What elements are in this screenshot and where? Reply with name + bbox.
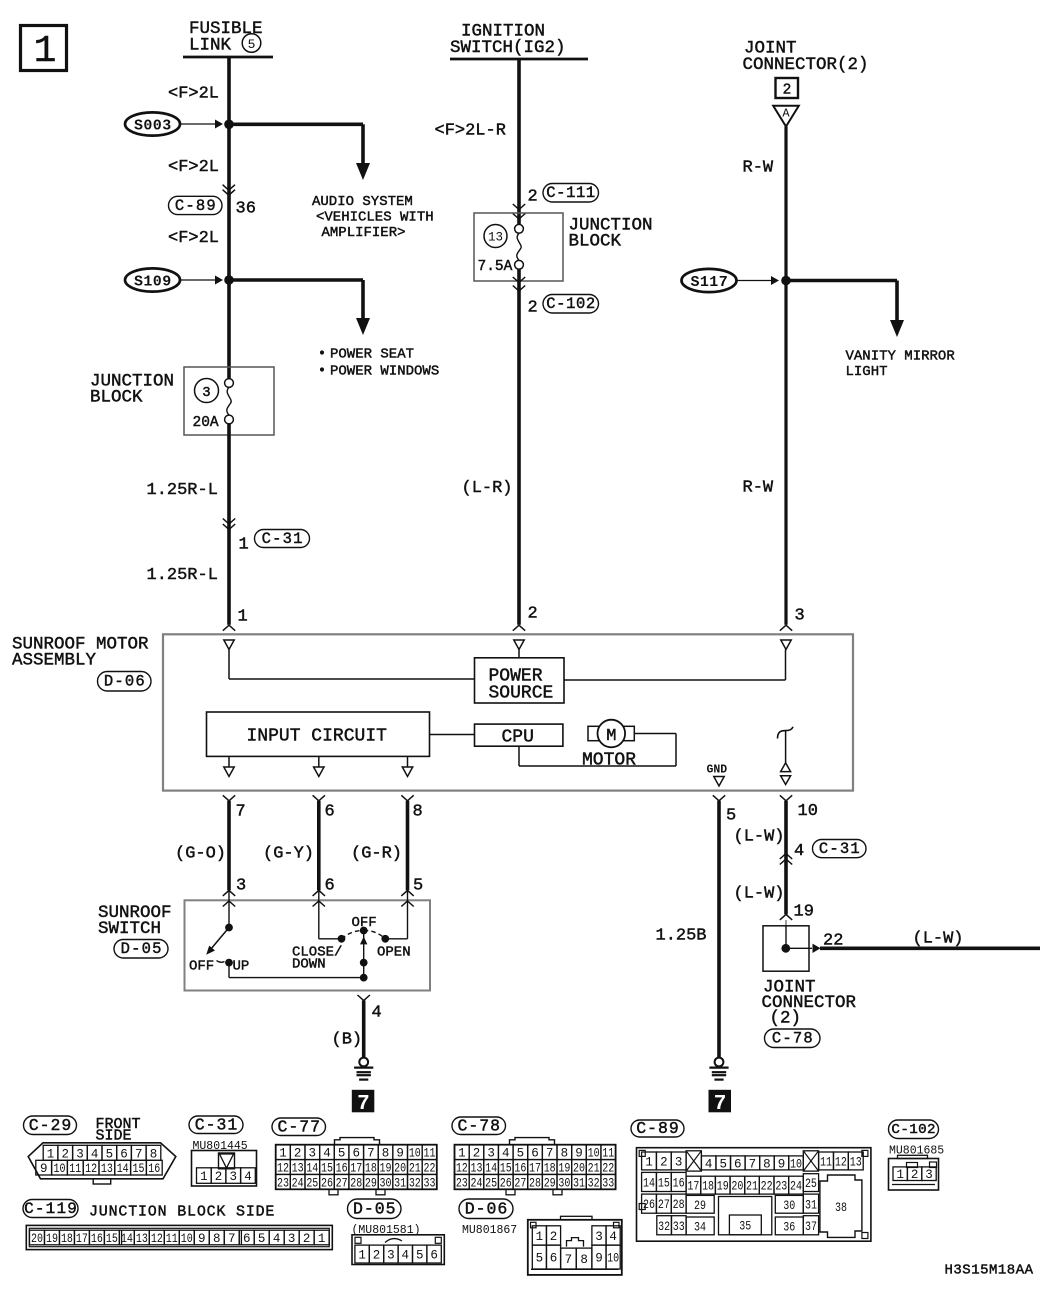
connector C-31 right label (813, 840, 867, 858)
svg-text:1: 1 (458, 1147, 466, 1161)
ground wire (B) (362, 1001, 366, 1059)
svg-text:32: 32 (409, 1176, 421, 1190)
svg-text:5: 5 (517, 1147, 525, 1161)
exit chevron pin 10 (780, 795, 792, 801)
svg-text:31: 31 (394, 1176, 406, 1190)
switch entry chevrons pin 5 (401, 890, 413, 896)
svg-text:10: 10 (54, 1162, 66, 1176)
svg-text:15: 15 (106, 1232, 118, 1246)
svg-text:8: 8 (382, 1147, 390, 1161)
svg-text:POWER SEAT: POWER SEAT (330, 347, 414, 363)
svg-text:31: 31 (573, 1176, 585, 1190)
svg-text:25: 25 (306, 1176, 318, 1190)
svg-text:11: 11 (820, 1155, 832, 1169)
svg-text:1: 1 (34, 30, 57, 73)
svg-text:2: 2 (473, 1147, 481, 1161)
svg-text:8: 8 (763, 1157, 771, 1171)
svg-text:7: 7 (135, 1147, 143, 1161)
svg-text:4: 4 (609, 1230, 617, 1244)
svg-text:OPEN: OPEN (377, 945, 411, 961)
wire below junction block mid (517, 269, 521, 625)
junction block (mid) box (474, 213, 563, 281)
svg-text:(2): (2) (770, 1009, 802, 1029)
close/down contact wire (318, 890, 320, 938)
svg-text:7: 7 (236, 803, 246, 822)
svg-text:11: 11 (166, 1232, 178, 1246)
svg-text:3: 3 (309, 1147, 317, 1161)
svg-text:1: 1 (238, 608, 248, 627)
svg-text:32: 32 (658, 1220, 670, 1234)
svg-text:8: 8 (213, 1232, 221, 1246)
input circuit output stubs and triangles (228, 756, 230, 767)
svg-text:3: 3 (925, 1168, 933, 1182)
svg-text:S109: S109 (134, 273, 172, 290)
svg-text:23: 23 (456, 1176, 468, 1190)
connector D-06 pins bottom (532, 1245, 546, 1269)
svg-text:POWER WINDOWS: POWER WINDOWS (330, 364, 439, 380)
svg-text:1.25R-L: 1.25R-L (147, 481, 218, 500)
svg-text:19: 19 (717, 1180, 729, 1194)
svg-text:(L-R): (L-R) (462, 479, 513, 498)
svg-text:2: 2 (373, 1249, 381, 1263)
connector C-89 label (169, 196, 223, 214)
joint connector triangle A (773, 106, 799, 127)
entry triangle pin 1 (224, 640, 234, 650)
svg-text:2: 2 (215, 1170, 223, 1184)
svg-text:15: 15 (321, 1162, 333, 1176)
svg-text:23: 23 (775, 1180, 787, 1194)
svg-text:22: 22 (823, 932, 843, 951)
svg-text:20: 20 (573, 1162, 585, 1176)
svg-text:22: 22 (423, 1162, 435, 1176)
svg-text:2: 2 (528, 605, 538, 624)
entry chevron pin 19 (780, 914, 792, 920)
svg-text:36: 36 (236, 200, 256, 219)
svg-text:21: 21 (409, 1162, 421, 1176)
svg-text:6: 6 (243, 1232, 251, 1246)
svg-text:(G-O): (G-O) (175, 845, 226, 864)
svg-text:C-102: C-102 (891, 1122, 936, 1138)
svg-text:3: 3 (202, 385, 210, 401)
sunroof switch box (185, 900, 431, 990)
svg-text:3: 3 (288, 1232, 296, 1246)
svg-text:VANITY MIRROR: VANITY MIRROR (846, 349, 956, 365)
svg-text:5: 5 (719, 1157, 727, 1171)
svg-text:SWITCH: SWITCH (98, 919, 161, 939)
wire pin 10 down (784, 801, 788, 914)
connector C-89 pin 37 (803, 1216, 818, 1235)
page number box 1 (21, 26, 67, 71)
svg-text:14: 14 (643, 1176, 655, 1190)
svg-text:8: 8 (150, 1147, 158, 1161)
svg-text:9: 9 (40, 1162, 48, 1176)
svg-text:2: 2 (528, 299, 538, 318)
svg-text:H3S15M18AA: H3S15M18AA (945, 1263, 1034, 1279)
svg-text:2: 2 (61, 1147, 69, 1161)
svg-text:CONNECTOR(2): CONNECTOR(2) (743, 55, 869, 75)
svg-text:7: 7 (714, 1093, 727, 1116)
connector D-05 bottom label (348, 1199, 402, 1219)
gnd triangle pin 5 (714, 777, 724, 787)
svg-text:6: 6 (430, 1249, 438, 1263)
svg-text:16: 16 (514, 1162, 526, 1176)
svg-text:2: 2 (550, 1230, 558, 1244)
connector D-06 middle tab (567, 1238, 584, 1247)
svg-text:13: 13 (136, 1232, 148, 1246)
svg-text:3: 3 (229, 1170, 237, 1184)
wire pin 8 to switch (406, 801, 410, 890)
connector C-89 pins 4-10 (701, 1156, 716, 1170)
svg-text:3: 3 (487, 1147, 495, 1161)
svg-text:<F>2L-R: <F>2L-R (435, 122, 506, 141)
svg-text:<F>2L: <F>2L (168, 158, 219, 177)
connector D-06 pins top (532, 1226, 546, 1245)
pigtail triangle up (781, 763, 791, 772)
connector D-06 label (98, 672, 152, 692)
svg-text:4: 4 (91, 1147, 99, 1161)
svg-text:(B): (B) (332, 1031, 363, 1050)
svg-text:10: 10 (798, 802, 818, 821)
wire fusible link vertical (227, 57, 231, 379)
svg-text:6: 6 (550, 1252, 558, 1266)
middle lever arrow up (360, 937, 367, 945)
svg-text:SWITCH(IG2): SWITCH(IG2) (450, 38, 566, 58)
svg-text:C-89: C-89 (636, 1119, 680, 1138)
svg-text:28: 28 (529, 1176, 541, 1190)
svg-text:32: 32 (588, 1176, 600, 1190)
svg-text:30: 30 (380, 1176, 392, 1190)
connector C-29 body (28, 1143, 176, 1179)
svg-text:2: 2 (911, 1168, 919, 1182)
svg-text:10: 10 (409, 1147, 421, 1161)
splice S117 (682, 269, 737, 292)
connector C-29 label (24, 1116, 77, 1135)
svg-text:5: 5 (106, 1147, 114, 1161)
svg-text:2: 2 (783, 83, 792, 99)
open contact wire (407, 890, 409, 938)
svg-text:1: 1 (279, 1147, 287, 1161)
node S117 junction dot (781, 276, 791, 286)
svg-text:BLOCK: BLOCK (569, 232, 622, 252)
ground symbol right (715, 1058, 724, 1067)
connector chevron pin 1 (223, 625, 235, 631)
svg-text:<VEHICLES WITH: <VEHICLES WITH (316, 210, 434, 226)
svg-text:C-102: C-102 (546, 295, 596, 313)
svg-text:17: 17 (350, 1162, 362, 1176)
svg-text:1: 1 (318, 1232, 326, 1246)
svg-text:22: 22 (761, 1180, 773, 1194)
connector C-89 inline chevrons (223, 185, 235, 191)
input circuit box (207, 712, 430, 756)
svg-text:12: 12 (151, 1232, 163, 1246)
svg-text:9: 9 (198, 1232, 206, 1246)
connector C-89 pins 11-13 (819, 1152, 834, 1170)
svg-text:14: 14 (306, 1162, 318, 1176)
pigtail triangle down (781, 776, 791, 785)
svg-text:18: 18 (365, 1162, 377, 1176)
node S003 junction dot (224, 120, 234, 130)
joint connector number box 2 (776, 78, 799, 98)
exit chevron pin 8 (401, 795, 413, 801)
svg-text:2: 2 (660, 1155, 668, 1169)
node mid junction dot (360, 959, 368, 967)
switch entry chevrons pin 3 (223, 890, 235, 896)
svg-text:3: 3 (76, 1147, 84, 1161)
connector C-29 pins row 2 (36, 1160, 52, 1175)
svg-text:2: 2 (528, 188, 538, 207)
connector C-89 pins 26-28 (642, 1194, 657, 1213)
svg-text:LIGHT: LIGHT (846, 364, 888, 380)
junction block (left) box (184, 367, 274, 435)
svg-text:S003: S003 (134, 117, 172, 134)
svg-text:37: 37 (805, 1220, 817, 1234)
connector C-89 X cell left (686, 1151, 701, 1171)
svg-text:19: 19 (46, 1232, 58, 1246)
svg-text:2: 2 (303, 1232, 311, 1246)
connector C-31 inline chevrons (223, 519, 235, 525)
svg-text:29: 29 (694, 1199, 706, 1213)
splice S003 (125, 112, 180, 135)
internal wire pin2 to power source top (518, 650, 520, 659)
svg-text:C-119: C-119 (24, 1200, 78, 1218)
connector C-78 label (765, 1029, 821, 1048)
svg-text:35: 35 (739, 1220, 751, 1234)
ground ref box 7 left (352, 1090, 375, 1113)
svg-text:22: 22 (602, 1162, 614, 1176)
svg-text:10: 10 (181, 1232, 193, 1246)
svg-text:7: 7 (749, 1157, 757, 1171)
splice S109 (125, 268, 180, 291)
svg-text:2: 2 (294, 1147, 302, 1161)
wire pin 6 to switch (317, 801, 321, 890)
svg-text:12: 12 (85, 1162, 97, 1176)
node OFF pole dot (360, 927, 368, 935)
svg-text:C-89: C-89 (175, 197, 217, 215)
svg-text:11: 11 (602, 1147, 614, 1161)
svg-text:33: 33 (423, 1176, 435, 1190)
svg-text:27: 27 (336, 1176, 348, 1190)
svg-text:CPU: CPU (502, 728, 534, 748)
switch up/off contact wire (228, 890, 230, 927)
svg-text:17: 17 (687, 1180, 699, 1194)
svg-text:M: M (606, 727, 616, 746)
svg-text:7.5A: 7.5A (478, 259, 513, 275)
svg-text:8: 8 (413, 803, 423, 822)
svg-text:MOTOR: MOTOR (582, 751, 636, 771)
svg-text:14: 14 (485, 1162, 497, 1176)
svg-text:28: 28 (673, 1198, 685, 1212)
wire branch to audio system (229, 123, 363, 127)
svg-text:D-05: D-05 (353, 1199, 397, 1218)
svg-text:1: 1 (200, 1170, 208, 1184)
connector C-111 label (543, 184, 599, 203)
svg-text:10: 10 (790, 1157, 802, 1171)
svg-text:(G-Y): (G-Y) (263, 845, 314, 864)
connector C-119 pins (30, 1230, 45, 1245)
connector C-89 pin 35 (719, 1197, 772, 1235)
svg-text:16: 16 (91, 1232, 103, 1246)
ground ref box 7 right (709, 1090, 732, 1113)
wire input circuit to cpu (430, 734, 475, 736)
svg-text:8: 8 (561, 1147, 569, 1161)
svg-text:C-31: C-31 (195, 1115, 239, 1134)
connector C-89 label (631, 1120, 684, 1137)
svg-text:C-31: C-31 (819, 840, 861, 858)
svg-text:C-78: C-78 (457, 1116, 501, 1135)
svg-text:11: 11 (69, 1162, 81, 1176)
connector chevron pin 2 (513, 625, 525, 631)
joint connector C-78 box (763, 926, 809, 971)
svg-text:18: 18 (544, 1162, 556, 1176)
entry triangle pin 2 (514, 640, 524, 650)
svg-text:1: 1 (536, 1230, 544, 1244)
svg-text:R-W: R-W (743, 479, 774, 498)
node S109 junction dot (224, 275, 234, 285)
connector C-31 label (255, 530, 310, 548)
svg-text:(L-W): (L-W) (734, 828, 785, 847)
svg-text:4: 4 (244, 1170, 252, 1184)
svg-text:INPUT CIRCUIT: INPUT CIRCUIT (247, 727, 388, 747)
svg-text:C-31: C-31 (262, 530, 304, 548)
svg-text:4: 4 (402, 1249, 410, 1263)
wire branch to vanity mirror light (786, 279, 897, 283)
connector C-89 body (637, 1148, 871, 1242)
node common junction dot (360, 974, 368, 982)
ignition switch bus bar (450, 58, 588, 61)
svg-text:30: 30 (558, 1176, 570, 1190)
connector D-05 pins (355, 1245, 369, 1263)
svg-text:4: 4 (705, 1157, 713, 1171)
fusible link bus bar (183, 56, 273, 59)
svg-text:UP: UP (233, 959, 250, 975)
svg-text:19: 19 (558, 1162, 570, 1176)
svg-text:5: 5 (536, 1252, 544, 1266)
svg-text:D-06: D-06 (104, 673, 146, 691)
svg-text:20: 20 (394, 1162, 406, 1176)
up/off lever arm (211, 928, 230, 950)
exit chevron pin 6 (313, 795, 325, 801)
svg-text:24: 24 (470, 1176, 482, 1190)
svg-text:26: 26 (500, 1176, 512, 1190)
fuse 7.5A symbol (515, 224, 524, 233)
svg-text:29: 29 (365, 1176, 377, 1190)
svg-text:13: 13 (470, 1162, 482, 1176)
svg-text:6: 6 (734, 1157, 742, 1171)
connector C-102 body (889, 1159, 939, 1191)
svg-text:17: 17 (76, 1232, 88, 1246)
connector C-77 body (335, 1138, 380, 1145)
svg-text:10: 10 (588, 1147, 600, 1161)
svg-text:1: 1 (239, 536, 249, 555)
connector C-102 pins (893, 1167, 907, 1181)
svg-text:7: 7 (228, 1232, 236, 1246)
svg-text:16: 16 (336, 1162, 348, 1176)
connector C-89 pin 38 (820, 1175, 862, 1237)
svg-text:21: 21 (588, 1162, 600, 1176)
svg-text:6: 6 (325, 877, 335, 896)
svg-text:3: 3 (795, 607, 805, 626)
connector D-05 body (352, 1235, 444, 1265)
svg-text:<F>2L: <F>2L (168, 229, 219, 248)
svg-text:25: 25 (805, 1177, 817, 1191)
connector C-89 pin 30 (775, 1195, 803, 1213)
svg-text:21: 21 (746, 1180, 758, 1194)
svg-text:26: 26 (321, 1176, 333, 1190)
svg-text:36: 36 (783, 1221, 795, 1235)
connector C-89 pin 36 (775, 1217, 803, 1235)
svg-text:1: 1 (645, 1155, 653, 1169)
svg-text:5: 5 (248, 37, 256, 52)
svg-text:D-05: D-05 (121, 940, 163, 958)
connector C-77 pins (276, 1145, 291, 1160)
svg-text:14: 14 (117, 1162, 129, 1176)
connector D-06 body (528, 1220, 622, 1275)
svg-text:13: 13 (850, 1155, 862, 1169)
connector C-89 X cell right (803, 1151, 818, 1171)
svg-text:10: 10 (607, 1252, 619, 1266)
svg-text:DOWN: DOWN (292, 957, 326, 973)
svg-text:6: 6 (325, 803, 335, 822)
svg-text:26: 26 (643, 1198, 655, 1212)
power seat / power windows labels (320, 350, 324, 354)
svg-text:33: 33 (673, 1220, 685, 1234)
svg-text:5: 5 (416, 1249, 424, 1263)
svg-text:3: 3 (387, 1249, 395, 1263)
svg-text:3: 3 (236, 877, 246, 896)
svg-text:4: 4 (794, 842, 804, 861)
svg-text:C-29: C-29 (29, 1116, 73, 1135)
connector C-78 body (510, 1138, 555, 1145)
wire branch to power seat/windows (229, 278, 363, 282)
svg-text:24: 24 (292, 1176, 304, 1190)
switch common wire to pin 4 (228, 963, 230, 978)
svg-text:3: 3 (595, 1230, 603, 1244)
svg-text:15: 15 (500, 1162, 512, 1176)
svg-text:7: 7 (546, 1147, 554, 1161)
ground symbol left (359, 1058, 368, 1067)
connector C-119 body (26, 1225, 332, 1249)
connector C-31 bottom label (189, 1116, 243, 1134)
svg-text:C-77: C-77 (277, 1117, 321, 1136)
connector C-89 pin 25 (803, 1174, 818, 1192)
connector C-102 chevrons (513, 277, 525, 283)
dashed lever arc (342, 930, 364, 938)
svg-text:12: 12 (835, 1155, 847, 1169)
svg-text:AUDIO SYSTEM: AUDIO SYSTEM (312, 194, 413, 210)
svg-text:15: 15 (658, 1176, 670, 1190)
svg-text:4: 4 (372, 1004, 382, 1023)
svg-text:(L-W): (L-W) (734, 885, 785, 904)
connector C-89 pins 17-24 (686, 1176, 701, 1194)
svg-text:9: 9 (778, 1157, 786, 1171)
svg-text:13: 13 (292, 1162, 304, 1176)
svg-text:4: 4 (323, 1147, 331, 1161)
svg-text:SIDE: SIDE (96, 1128, 132, 1145)
fuse number circle 3 (195, 379, 219, 403)
svg-text:BLOCK: BLOCK (90, 388, 143, 408)
svg-text:25: 25 (485, 1176, 497, 1190)
svg-text:SOURCE: SOURCE (489, 684, 554, 704)
svg-text:A: A (782, 107, 790, 121)
connector C-89 pins 14-16 (642, 1172, 657, 1191)
cpu box (475, 724, 563, 746)
svg-text:13: 13 (488, 231, 503, 245)
connector C-89 pin 31 (803, 1194, 818, 1213)
svg-text:5: 5 (258, 1232, 266, 1246)
svg-text:1: 1 (47, 1147, 55, 1161)
wire below junction block (227, 424, 231, 625)
node UP contact dot (225, 959, 233, 967)
